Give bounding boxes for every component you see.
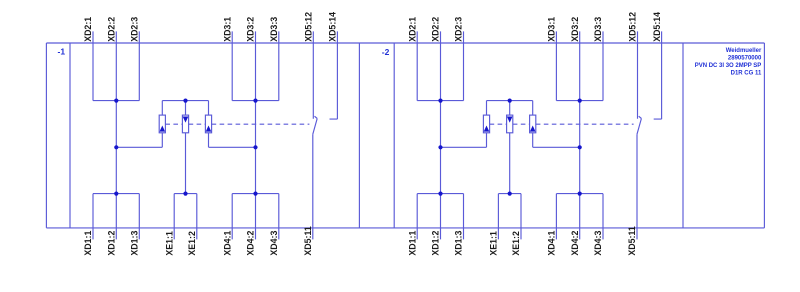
svg-text:PVN DC 3I 3O 2MPP SP: PVN DC 3I 3O 2MPP SP	[695, 63, 762, 69]
svg-text:XD4:2: XD4:2	[570, 231, 580, 256]
svg-text:D1R CG 11: D1R CG 11	[731, 70, 762, 76]
svg-text:XD3:2: XD3:2	[570, 17, 580, 42]
svg-text:XD4:1: XD4:1	[547, 231, 557, 256]
svg-text:XD1:3: XD1:3	[130, 231, 140, 256]
svg-text:XD5:12: XD5:12	[304, 12, 314, 42]
svg-text:XE1:1: XE1:1	[489, 231, 499, 256]
svg-text:XE1:2: XE1:2	[511, 231, 521, 256]
svg-text:XD4:3: XD4:3	[269, 231, 279, 256]
svg-text:XD1:1: XD1:1	[83, 231, 93, 256]
svg-text:XD4:1: XD4:1	[222, 231, 232, 256]
svg-text:XD5:14: XD5:14	[652, 12, 662, 42]
svg-text:XD5:11: XD5:11	[627, 226, 637, 255]
svg-text:XD4:2: XD4:2	[246, 231, 256, 256]
svg-text:XD3:1: XD3:1	[547, 17, 557, 42]
svg-text:XD2:3: XD2:3	[130, 17, 140, 42]
svg-text:XD1:1: XD1:1	[407, 231, 417, 256]
svg-text:XD5:14: XD5:14	[328, 12, 338, 42]
svg-text:XD4:3: XD4:3	[593, 231, 603, 256]
svg-text:XD5:11: XD5:11	[303, 226, 313, 255]
svg-text:XD3:2: XD3:2	[246, 17, 256, 42]
svg-text:XD2:1: XD2:1	[83, 17, 93, 42]
svg-text:XD3:3: XD3:3	[593, 17, 603, 42]
svg-text:XD3:3: XD3:3	[269, 17, 279, 42]
svg-text:XD2:1: XD2:1	[407, 17, 417, 42]
svg-text:XD2:3: XD2:3	[454, 17, 464, 42]
svg-text:-2: -2	[382, 47, 390, 57]
svg-text:XD5:12: XD5:12	[628, 12, 638, 42]
svg-text:XD2:2: XD2:2	[107, 17, 117, 42]
svg-text:XE1:1: XE1:1	[164, 231, 174, 256]
svg-text:XD1:3: XD1:3	[454, 231, 464, 256]
svg-text:2890570000: 2890570000	[728, 55, 762, 61]
svg-text:XD2:2: XD2:2	[431, 17, 441, 42]
svg-text:XD3:1: XD3:1	[222, 17, 232, 42]
svg-text:XD1:2: XD1:2	[431, 231, 441, 256]
svg-text:-1: -1	[58, 47, 66, 57]
svg-text:XE1:2: XE1:2	[187, 231, 197, 256]
svg-text:Weidmueller: Weidmueller	[726, 48, 762, 54]
svg-text:XD1:2: XD1:2	[107, 231, 117, 256]
